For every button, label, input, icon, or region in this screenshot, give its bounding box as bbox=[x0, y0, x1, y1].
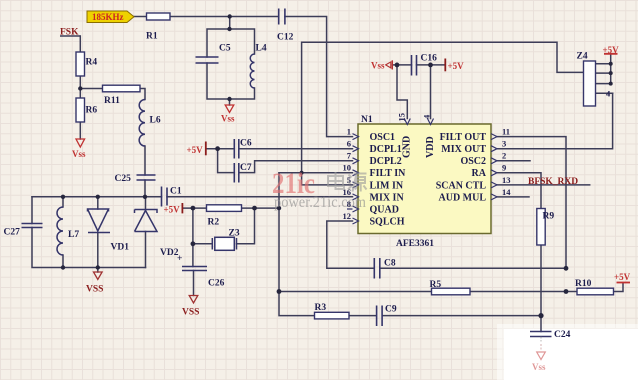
svg-text:1: 1 bbox=[347, 127, 351, 137]
svg-text:C16: C16 bbox=[421, 54, 438, 64]
svg-text:R6: R6 bbox=[86, 106, 98, 116]
svg-text:C27: C27 bbox=[4, 228, 21, 238]
svg-text:R11: R11 bbox=[104, 96, 120, 106]
svg-text:BFSK_RXD: BFSK_RXD bbox=[528, 177, 578, 187]
svg-text:C1: C1 bbox=[170, 187, 182, 197]
svg-text:OSC1: OSC1 bbox=[370, 132, 396, 143]
svg-text:power.21ic.com: power.21ic.com bbox=[274, 194, 366, 211]
svg-text:Vss: Vss bbox=[221, 114, 235, 124]
svg-text:MIX OUT: MIX OUT bbox=[441, 144, 486, 155]
svg-text:R2: R2 bbox=[208, 218, 220, 228]
svg-text:Z4: Z4 bbox=[577, 52, 588, 62]
svg-text:R9: R9 bbox=[543, 212, 555, 222]
svg-text:R1: R1 bbox=[146, 32, 158, 42]
svg-text:VSS: VSS bbox=[86, 285, 103, 295]
svg-text:GND: GND bbox=[402, 136, 413, 158]
svg-text:+5V: +5V bbox=[187, 145, 204, 155]
svg-text:10: 10 bbox=[343, 163, 352, 173]
svg-text:R5: R5 bbox=[430, 280, 442, 290]
svg-text:R4: R4 bbox=[86, 58, 98, 68]
svg-text:12: 12 bbox=[343, 211, 352, 221]
svg-text:9: 9 bbox=[502, 163, 506, 173]
svg-text:15: 15 bbox=[397, 113, 407, 122]
svg-text:C12: C12 bbox=[277, 33, 294, 43]
svg-text:MIX IN: MIX IN bbox=[370, 192, 405, 203]
svg-text:SCAN CTL: SCAN CTL bbox=[436, 180, 487, 191]
svg-text:C9: C9 bbox=[385, 305, 397, 315]
svg-text:L7: L7 bbox=[68, 230, 79, 240]
svg-text:C7: C7 bbox=[240, 163, 252, 173]
svg-text:VSS: VSS bbox=[182, 308, 199, 318]
svg-text:FILT IN: FILT IN bbox=[370, 168, 407, 179]
svg-text:DCPL1: DCPL1 bbox=[370, 144, 402, 155]
svg-text:6: 6 bbox=[347, 139, 351, 149]
svg-text:2: 2 bbox=[502, 151, 506, 161]
svg-text:L4: L4 bbox=[256, 44, 267, 54]
svg-text:VD1: VD1 bbox=[111, 243, 130, 253]
svg-text:Vss: Vss bbox=[371, 61, 385, 71]
svg-text:185KHz: 185KHz bbox=[92, 12, 124, 22]
svg-text:R10: R10 bbox=[575, 279, 592, 289]
svg-text:C8: C8 bbox=[384, 259, 396, 269]
svg-text:C6: C6 bbox=[240, 139, 252, 149]
svg-text:Z3: Z3 bbox=[229, 229, 240, 239]
svg-text:Vss: Vss bbox=[72, 149, 86, 159]
svg-text:Vss: Vss bbox=[532, 362, 546, 372]
svg-text:C25: C25 bbox=[115, 174, 132, 184]
svg-text:QUAD: QUAD bbox=[370, 204, 399, 215]
svg-text:L6: L6 bbox=[150, 116, 161, 126]
svg-text:11: 11 bbox=[502, 127, 510, 137]
svg-text:+5V: +5V bbox=[614, 272, 631, 282]
svg-text:FILT OUT: FILT OUT bbox=[440, 132, 487, 143]
svg-text:13: 13 bbox=[502, 175, 511, 185]
svg-text:AUD MUL: AUD MUL bbox=[439, 192, 487, 203]
svg-text:C24: C24 bbox=[554, 330, 571, 340]
svg-text:AFE3361: AFE3361 bbox=[396, 239, 434, 249]
svg-text:LIM IN: LIM IN bbox=[370, 180, 404, 191]
svg-text:3: 3 bbox=[502, 139, 506, 149]
svg-text:N1: N1 bbox=[361, 115, 373, 125]
svg-text:SQLCH: SQLCH bbox=[370, 216, 405, 227]
svg-text:+5V: +5V bbox=[448, 61, 465, 71]
svg-text:C5: C5 bbox=[219, 44, 231, 54]
svg-text:R3: R3 bbox=[315, 303, 327, 313]
svg-text:VDD: VDD bbox=[425, 136, 436, 158]
svg-text:OSC2: OSC2 bbox=[460, 156, 486, 167]
svg-text:14: 14 bbox=[502, 187, 511, 197]
svg-text:C26: C26 bbox=[208, 279, 225, 289]
svg-text:VD2: VD2 bbox=[160, 248, 179, 258]
svg-text:+5V: +5V bbox=[164, 205, 181, 215]
svg-text:RA: RA bbox=[472, 168, 487, 179]
svg-text:DCPL2: DCPL2 bbox=[370, 156, 402, 167]
